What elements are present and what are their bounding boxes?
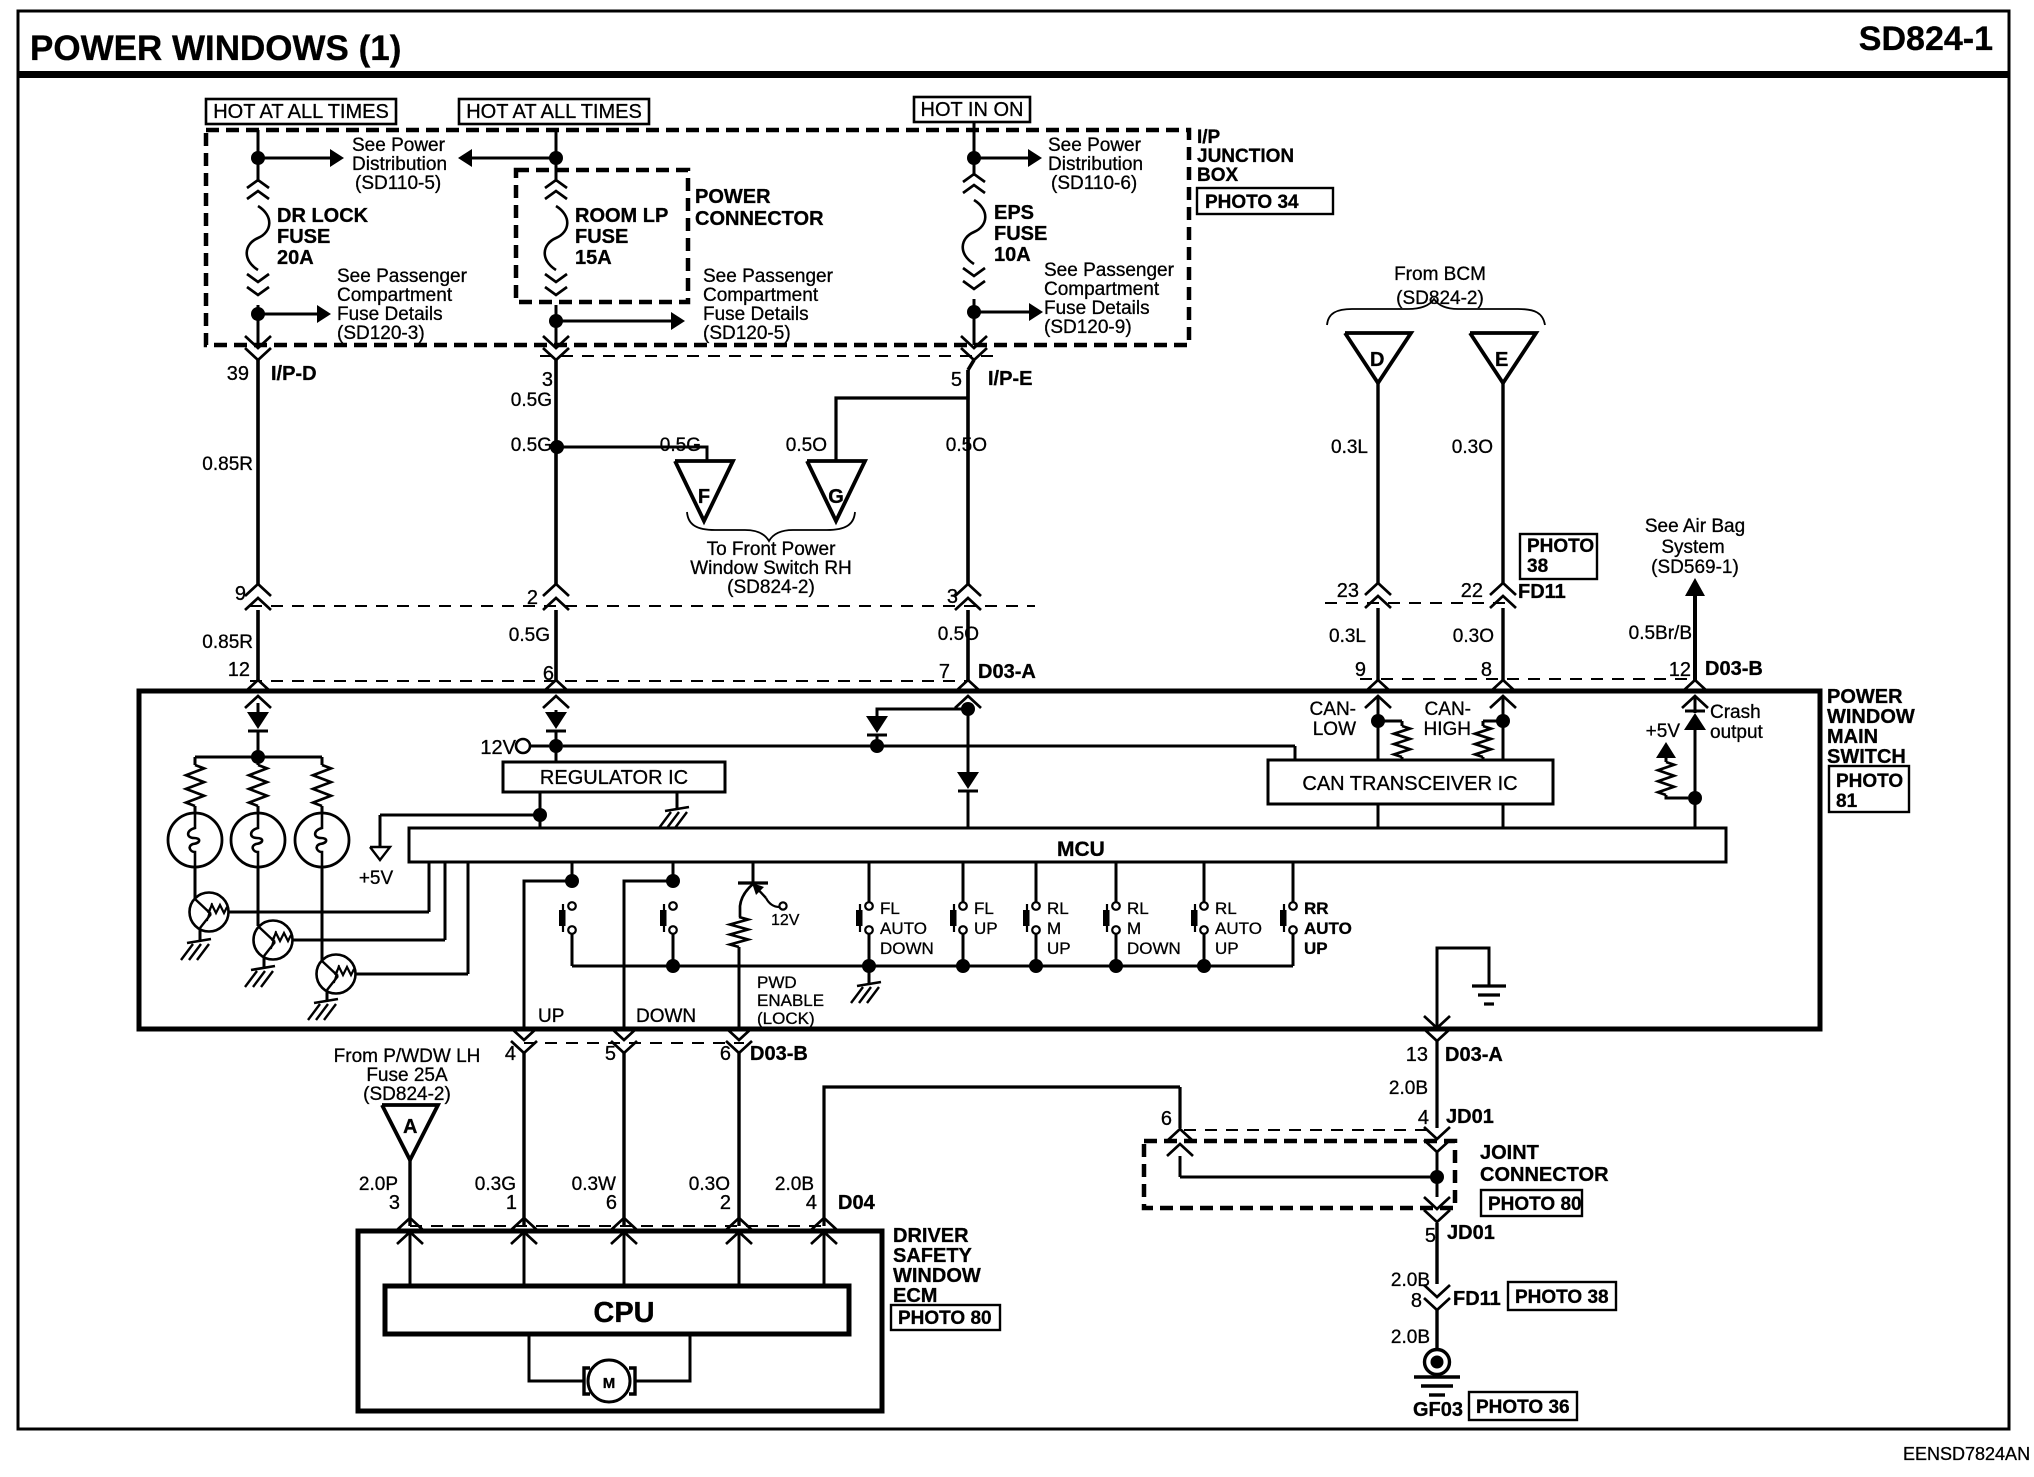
svg-text:Crash: Crash [1710,702,1761,723]
svg-text:3: 3 [542,369,553,391]
connector pin 6 D03-B LOCK [720,1028,808,1065]
diode col2 [545,710,567,746]
title POWER WINDOWS (1) [30,29,401,68]
CPU box [385,1286,849,1334]
svg-text:SAFETY: SAFETY [893,1245,973,1267]
connector pin 3 D04 [389,1192,423,1244]
svg-text:DOWN: DOWN [880,939,934,958]
svg-text:POWER WINDOWS (1): POWER WINDOWS (1) [30,29,401,68]
label box PHOTO 38 (FD11) [1520,534,1597,579]
svg-text:HOT AT ALL TIMES: HOT AT ALL TIMES [466,101,642,123]
note See Air Bag System (SD569-1) [1645,516,1745,578]
label box HOT AT ALL TIMES (left) [206,99,396,124]
switch FL UP [950,862,998,966]
fuse EPS FUSE 10A [963,174,986,289]
svg-text:FUSE: FUSE [277,226,330,248]
svg-text:Compartment: Compartment [703,285,819,306]
connector D triangle from BCM [1345,333,1411,383]
svg-text:M: M [1127,919,1141,938]
label box PHOTO 36 [1469,1392,1577,1420]
connector A triangle from fuse 25A [382,1105,438,1160]
wire junction to pin 5 [1436,1177,1439,1197]
ground wire main switch [1437,948,1489,1029]
DRIVER SAFETY WINDOW ECM box [358,1231,882,1411]
svg-text:PWD: PWD [757,973,797,992]
connector pin 4 JD01 [1418,1106,1494,1152]
terminal 12V [480,737,530,759]
note See Passenger Compartment Fuse Details (SD120-9) [1044,260,1175,338]
diode crash output [1684,702,1764,798]
diode col1 [247,703,269,757]
svg-text:SWITCH: SWITCH [1827,746,1906,768]
svg-text:EPS: EPS [994,202,1034,224]
svg-text:UP: UP [1215,939,1239,958]
note From P/WDW LH Fuse 25A (SD824-2) [334,1046,481,1105]
wire 2.0P [359,1160,410,1226]
wire pin6 to CPU [623,1232,626,1286]
junction node CAN-LOW [1310,699,1385,740]
wire arrow to See Passenger Compartment Fuse Details (SD120-5) [556,312,685,330]
connector pin 6 D03-A col2 [543,663,569,708]
svg-text:CPU: CPU [593,1297,654,1329]
illumination lamp 3 [295,806,349,867]
junction node joint connector [1430,1170,1444,1184]
wire UP pin branch [524,881,572,1029]
connector pin 23 FD11 [1337,580,1391,608]
wire col2 from HOT AT ALL TIMES [555,130,558,158]
wire 0.85R col1 [202,360,258,584]
transistor Q2 lamp driver [254,921,293,960]
svg-text:I/P-D: I/P-D [271,363,317,385]
wire CPU to motor left [529,1334,584,1381]
connector pin 9 D03-B [1355,659,1391,708]
label box PHOTO 38 (FD11 bottom) [1508,1282,1616,1310]
svg-text:D03-A: D03-A [978,661,1036,683]
svg-text:5: 5 [605,1043,616,1065]
svg-text:F: F [698,486,710,508]
dashed connector line D03-B bottom [524,1042,744,1044]
svg-text:See Passenger: See Passenger [703,266,834,287]
switch DOWN [660,902,677,966]
junction node lamp branch [251,750,265,764]
svg-text:HOT AT ALL TIMES: HOT AT ALL TIMES [213,101,389,123]
svg-text:6: 6 [606,1192,617,1214]
svg-text:2: 2 [720,1192,731,1214]
svg-text:FL: FL [880,899,900,918]
ground under Q1 [181,929,211,960]
svg-text:JD01: JD01 [1446,1106,1494,1128]
wire CAN-LOW from pin 9 [1377,696,1380,721]
wire 0.85R col1 lower [202,610,258,680]
connector pin 1 D04 [506,1192,537,1244]
wire 2.0B from ECM to joint connector [775,1087,1180,1226]
svg-text:D03-B: D03-B [750,1043,808,1065]
svg-text:0.5O: 0.5O [938,624,979,645]
svg-text:DOWN: DOWN [1127,939,1181,958]
svg-text:RL: RL [1127,899,1149,918]
wire col5 from HOT IN ON [973,122,976,158]
svg-text:Distribution: Distribution [352,154,447,175]
dashed connector line D04 [410,1225,830,1227]
wire arrow to See Power Distribution (SD110-5) [258,149,344,167]
connector pin 12 D03-B [1669,658,1763,708]
power connector box (dashed) [516,170,688,302]
svg-text:POWER: POWER [1827,686,1903,708]
thin dashed line JD01 top [1184,1129,1430,1131]
resistor CAN-LOW [1378,721,1410,760]
wire col1 below fuse [257,305,260,345]
wire lamp2 to driver Q2 [257,867,260,926]
svg-text:FD11: FD11 [1453,1288,1501,1310]
transistor PWD enable [738,862,800,929]
label PWD ENABLE (LOCK) [757,973,824,1028]
svg-text:I/P: I/P [1197,127,1221,148]
label UP [538,1006,564,1027]
wire branch to connector F [557,435,707,461]
label box HOT AT ALL TIMES (middle) [459,99,649,124]
wire col5 to fuse [973,158,976,176]
switch FL AUTO DOWN [856,862,934,966]
connector pin 13 D03-A bottom [1406,1016,1503,1066]
junction node col1 top [251,151,265,165]
connector pin 8 D03-B [1481,659,1516,708]
svg-text:(SD824-2): (SD824-2) [363,1084,451,1105]
svg-text:12: 12 [228,659,250,681]
switch RL M DOWN [1103,862,1181,966]
svg-text:(SD824-2): (SD824-2) [1396,288,1484,309]
svg-text:RR: RR [1304,899,1329,918]
svg-text:12: 12 [1669,659,1691,681]
svg-text:0.5O: 0.5O [946,435,987,456]
wire 0.3O LOCK to ECM [689,1053,739,1226]
label box PHOTO 81 [1829,766,1909,812]
connector F triangle [675,461,733,521]
svg-text:0.5G: 0.5G [660,435,701,456]
svg-text:E: E [1495,349,1508,371]
svg-text:ENABLE: ENABLE [757,991,824,1010]
svg-text:FL: FL [974,899,994,918]
wire lamp1 to driver Q1 [194,867,197,898]
wire CAN-HIGH from pin 8 [1502,696,1505,721]
junction node col5 branch [961,702,975,716]
label JOINT CONNECTOR [1480,1142,1609,1186]
connector pin 6 D04 [606,1192,637,1244]
svg-text:1: 1 [506,1192,517,1214]
connector pin 6 JD01 [1167,1129,1193,1156]
svg-text:0.5Br/B: 0.5Br/B [1629,623,1692,644]
note From BCM (SD824-2) [1394,264,1486,309]
svg-text:UP: UP [1304,939,1328,958]
svg-text:REGULATOR IC: REGULATOR IC [540,767,688,789]
wire col1 from HOT AT ALL TIMES [257,130,260,158]
wire joint connector internal [1180,1156,1437,1177]
wire crash to MCU [1694,798,1697,828]
svg-text:See Power: See Power [352,135,446,156]
thin dashed connector line below I/P box [540,355,1000,357]
svg-text:4: 4 [505,1043,516,1065]
wire 12V to rail [530,745,549,748]
wire 0.5O col5 upper [946,360,987,584]
svg-text:Compartment: Compartment [1044,279,1160,300]
svg-text:Window Switch RH: Window Switch RH [690,558,852,579]
connector pin 8 FD11 [1411,1285,1501,1312]
resistor lamp3 [313,757,331,806]
wire col5 below fuse [973,299,976,345]
dashed connector line D03-A [250,680,968,682]
label DRIVER SAFETY WINDOW ECM [893,1225,981,1307]
wire 0.3L from D [1331,383,1378,583]
connector pin 3 I/P-D col2 [542,336,569,391]
label box PHOTO 80 (joint connector) [1481,1190,1582,1216]
svg-text:6: 6 [1161,1108,1172,1130]
wire col5 branch to connector G [786,370,968,461]
svg-text:38: 38 [1527,556,1548,577]
svg-text:FUSE: FUSE [575,226,628,248]
svg-text:5: 5 [951,369,962,391]
junction node col5 lower [967,305,981,319]
svg-text:HIGH: HIGH [1424,719,1472,740]
wire 0.5Br/B crash output [1629,594,1695,680]
svg-text:UP: UP [1047,939,1071,958]
svg-text:DR LOCK: DR LOCK [277,205,369,227]
svg-text:WINDOW: WINDOW [893,1265,981,1287]
wire Q1 to MCU [228,862,429,912]
wire pin2 to CPU [738,1232,741,1286]
svg-text:ROOM LP: ROOM LP [575,205,668,227]
junction node +5V branch [533,808,547,822]
svg-text:23: 23 [1337,580,1359,602]
REGULATOR IC box [503,762,725,792]
wire 0.5O col5 lower [938,610,979,680]
diode D4 col5 [957,772,979,828]
wire col2 into regulator [555,746,558,762]
svg-text:A: A [403,1116,417,1138]
joint connector box (dashed) [1144,1141,1455,1208]
wire 0.5G col2 upper [511,360,556,447]
svg-text:CAN-: CAN- [1310,699,1356,720]
note To Front Power Window Switch RH (SD824-2) [690,539,852,598]
svg-text:UP: UP [538,1006,564,1027]
connector E triangle from BCM [1470,333,1536,383]
label box HOT IN ON [914,97,1030,122]
wire MCU to UP switch [571,862,574,881]
connector pin 5 JD01 [1424,1197,1495,1247]
wire CAN-LOW to MCU [1377,804,1380,828]
wire crash output from pin 12 [1694,696,1697,713]
wire CAN-HIGH to MCU [1502,804,1505,828]
wire col2 below fuse [555,305,558,345]
svg-text:To Front Power: To Front Power [707,539,836,560]
wire regulator output [539,792,542,828]
svg-text:Fuse Details: Fuse Details [337,304,443,325]
junction node col2 lower [549,314,563,328]
wire 0.3O from E [1452,383,1503,583]
wire pin1 to CPU [523,1232,526,1286]
connector pin 22 FD11 [1461,580,1566,608]
svg-text:12V: 12V [771,912,800,929]
dashed connector line pins 9-2-3 [250,605,1035,607]
switch UP [559,902,576,966]
connector pin 4 D04 [806,1192,876,1244]
arrow +5V crash [1646,721,1681,758]
svg-text:RL: RL [1215,899,1237,918]
ground under Q2 [245,957,275,987]
resistor lamp2 [249,757,267,806]
svg-text:System: System [1661,537,1724,558]
svg-text:Fuse Details: Fuse Details [1044,298,1150,319]
switch common bus wire [572,965,1293,968]
note See Passenger Compartment Fuse Details (SD120-5) [703,266,834,344]
label GF03 [1413,1399,1463,1421]
svg-text:CAN TRANSCEIVER IC: CAN TRANSCEIVER IC [1302,773,1517,795]
connector pin 39 I/P-D [227,336,317,385]
junction node CAN-HIGH [1424,699,1511,740]
svg-text:+5V: +5V [359,868,394,889]
wire 0.3G UP to ECM [475,1053,524,1226]
wire 0.5G col2 bottom [509,610,556,680]
svg-text:Distribution: Distribution [1048,154,1143,175]
svg-text:39: 39 [227,363,249,385]
title separator bar [18,71,2009,78]
wire col2 to fuse [555,158,558,182]
wire 0.3L lower [1329,608,1378,680]
svg-text:(SD120-5): (SD120-5) [703,323,791,344]
ground GF03 bolt [1425,1350,1450,1375]
wire col5 branch to diode D3 [877,709,968,716]
svg-text:PHOTO 36: PHOTO 36 [1476,1397,1570,1418]
fuse DR LOCK FUSE 20A [247,180,270,295]
junction node col5 top [967,151,981,165]
illumination lamp 2 [231,806,285,867]
wire CPU to motor right [636,1334,690,1381]
svg-text:AUTO: AUTO [880,919,927,938]
wire 2.0B col JD01 upper [1389,1041,1437,1128]
label box PHOTO 80 (ECM) [891,1305,1000,1330]
resistor lamp1 [186,757,204,806]
svg-text:2.0B: 2.0B [1391,1327,1430,1348]
resistor PWD enable [730,917,748,947]
label POWER WINDOW MAIN SWITCH [1827,686,1915,768]
ground under Q3 [308,991,338,1020]
svg-text:(SD569-1): (SD569-1) [1651,557,1739,578]
wire CAN-LOW into transceiver [1377,721,1380,760]
wire Q3 to MCU [355,862,468,974]
svg-text:0.5G: 0.5G [511,390,552,411]
svg-text:Compartment: Compartment [337,285,453,306]
wire 2.0B feed to joint connector pin 6 [1161,1087,1180,1130]
svg-text:PHOTO 80: PHOTO 80 [898,1308,992,1329]
POWER WINDOW MAIN SWITCH box [139,691,1820,1029]
svg-text:See Power: See Power [1048,135,1142,156]
connector pin 2 col2 [527,584,569,610]
svg-text:6: 6 [720,1043,731,1065]
wire 0.3O lower [1453,608,1503,680]
svg-text:I/P-E: I/P-E [988,368,1032,390]
junction node col2 top [549,151,563,165]
wire arrow to See Power Distribution (SD110-6) [974,149,1042,167]
svg-text:(SD110-6): (SD110-6) [1051,173,1137,194]
CAN TRANSCEIVER IC box [1268,760,1553,804]
svg-text:PHOTO 34: PHOTO 34 [1205,192,1299,213]
wire +5V branch [380,815,540,847]
wire pin4 to CPU [823,1232,826,1286]
svg-text:0.85R: 0.85R [202,454,253,475]
svg-text:See Passenger: See Passenger [337,266,468,287]
svg-text:4: 4 [806,1192,817,1214]
svg-text:0.3O: 0.3O [1453,626,1494,647]
svg-text:LOW: LOW [1313,719,1356,740]
wire arrow to See Passenger Compartment Fuse Details (SD120-9) [974,303,1043,321]
svg-text:22: 22 [1461,580,1483,602]
wire 2.0B below joint connector [1391,1223,1437,1291]
wire 0.5G col2 lower [511,435,556,584]
svg-text:3: 3 [947,586,958,608]
svg-text:5: 5 [1425,1225,1436,1247]
label EPS FUSE 10A [994,202,1047,266]
MCU box [409,828,1726,862]
connector pin 2 D04 [720,1192,752,1244]
svg-text:4: 4 [1418,1107,1429,1129]
svg-text:See Air Bag: See Air Bag [1645,516,1745,537]
label DOWN [636,1006,696,1027]
junction node UP switch [565,874,579,888]
svg-text:From BCM: From BCM [1394,264,1486,285]
svg-text:AUTO: AUTO [1215,919,1262,938]
svg-text:JD01: JD01 [1447,1222,1495,1244]
svg-text:JOINT: JOINT [1480,1142,1539,1164]
svg-text:D: D [1370,349,1384,371]
svg-text:0.3L: 0.3L [1331,437,1368,458]
label box PHOTO 34 [1197,188,1333,214]
svg-text:D04: D04 [838,1192,876,1214]
I/P junction box (dashed) [206,130,1189,345]
arrow to air bag system [1685,578,1705,596]
svg-text:3: 3 [389,1192,400,1214]
svg-text:output: output [1710,722,1764,743]
motor M window [584,1360,635,1402]
svg-text:UP: UP [974,919,998,938]
svg-text:20A: 20A [277,247,314,269]
note See Power Distribution (SD110-5) [352,135,447,194]
junction node DOWN switch [666,874,680,888]
note See Passenger Compartment Fuse Details (SD120-3) [337,266,468,344]
dashed connector line FD11 [1325,602,1512,604]
svg-text:See Passenger: See Passenger [1044,260,1175,281]
svg-text:(SD120-3): (SD120-3) [337,323,425,344]
label DR LOCK FUSE 20A [277,205,369,269]
svg-text:10A: 10A [994,244,1031,266]
svg-text:2.0B: 2.0B [1391,1270,1430,1291]
svg-text:8: 8 [1411,1290,1422,1312]
svg-text:13: 13 [1406,1044,1428,1066]
svg-text:MCU: MCU [1057,838,1105,861]
dashed connector line D03-B [1360,678,1695,680]
illumination lamp 1 [168,806,222,867]
svg-text:DRIVER: DRIVER [893,1225,969,1247]
svg-text:8: 8 [1481,659,1492,681]
svg-text:0.3L: 0.3L [1329,626,1366,647]
svg-text:JUNCTION: JUNCTION [1197,146,1294,167]
switch RL M UP [1023,862,1071,966]
svg-text:From P/WDW LH: From P/WDW LH [334,1046,481,1067]
wire MCU to DOWN switch [672,862,675,881]
svg-text:0.5G: 0.5G [509,625,550,646]
svg-text:G: G [828,486,844,508]
document number EENSD7824AN [1903,1444,2030,1464]
switch RR AUTO UP [1280,862,1352,966]
connector G triangle [807,461,865,521]
junction nodes on switch bus [666,959,1211,973]
